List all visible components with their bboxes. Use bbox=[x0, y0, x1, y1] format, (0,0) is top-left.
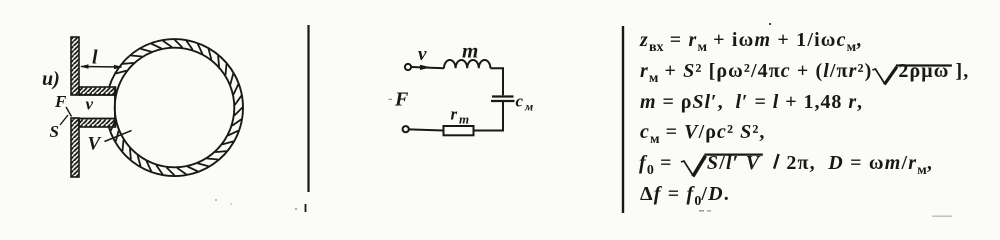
svg-text:V: V bbox=[88, 134, 102, 155]
svg-text:S: S bbox=[50, 122, 59, 141]
svg-text:v: v bbox=[418, 44, 427, 65]
svg-text:l: l bbox=[92, 47, 98, 69]
svg-text:F: F bbox=[54, 92, 67, 111]
svg-text:r: r bbox=[451, 105, 458, 124]
svg-text:м: м bbox=[524, 100, 533, 114]
svg-text:F: F bbox=[394, 89, 409, 111]
svg-text:m: m bbox=[459, 112, 469, 127]
svg-text:v: v bbox=[86, 95, 94, 114]
svg-text:и): и) bbox=[42, 68, 60, 90]
svg-text:m: m bbox=[462, 39, 478, 63]
svg-text:c: c bbox=[516, 92, 524, 111]
